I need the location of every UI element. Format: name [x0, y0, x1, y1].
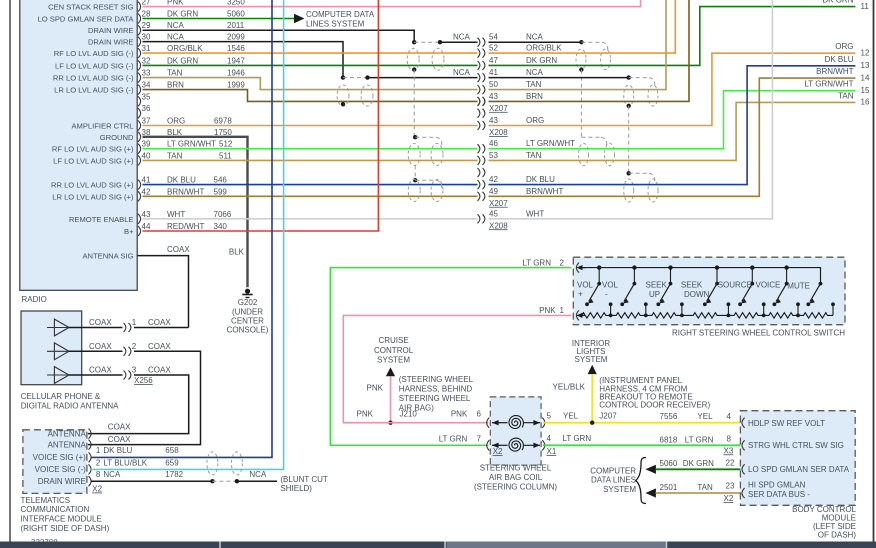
node connector row 47: [478, 61, 480, 70]
svg-text:X2: X2: [493, 447, 503, 456]
wire ORG pin43 to right edge pin12: [489, 53, 856, 125]
svg-text:43: 43: [142, 210, 151, 219]
svg-text:RF LO LVL AUD SIG (+): RF LO LVL AUD SIG (+): [52, 145, 134, 154]
svg-text:WHT: WHT: [526, 209, 544, 218]
wire shield dash 2011: [414, 41, 440, 43]
svg-text:7066: 7066: [214, 210, 232, 219]
svg-text:1750: 1750: [214, 128, 232, 137]
wire TAN pin53 to right edge pin16: [489, 102, 856, 160]
svg-text:8: 8: [727, 435, 732, 444]
svg-text:NCA: NCA: [249, 470, 267, 479]
node arrow computer data tan: [645, 488, 656, 497]
node radio pin bracket: [138, 25, 141, 35]
svg-text:42: 42: [489, 175, 498, 184]
svg-text:YEL/BLK: YEL/BLK: [553, 383, 586, 392]
svg-text:658: 658: [165, 446, 179, 455]
svg-text:6: 6: [477, 410, 482, 419]
wire shield dash 2099: [343, 77, 368, 79]
wire LT GRN/WHT pin46 to right edge pin15: [489, 91, 856, 149]
svg-text:41: 41: [142, 176, 151, 185]
node junction drain 2011 b: [438, 40, 442, 44]
svg-text:16: 16: [861, 98, 870, 107]
svg-text:46: 46: [489, 139, 498, 148]
wire NCA pin54 shield drain right: [489, 41, 582, 43]
shield R4 dot dash: [627, 171, 631, 175]
op-amp telematics interface module box: [23, 430, 87, 494]
wire shield R1 dash: [581, 41, 602, 43]
svg-text:511: 511: [219, 151, 232, 160]
svg-text:YEL: YEL: [563, 411, 579, 420]
svg-text:HI SPD GMLAN: HI SPD GMLAN: [748, 481, 806, 490]
node shield R1 bottom dot: [579, 67, 583, 71]
svg-text:LT GRN: LT GRN: [439, 434, 468, 443]
node coil left brackets: [487, 418, 490, 428]
svg-text:NCA: NCA: [453, 33, 471, 42]
svg-text:1546: 1546: [227, 44, 245, 53]
wire TAN 1946 radio pin33: [143, 78, 478, 90]
switch riser 3: [680, 302, 684, 306]
node connector row 50: [478, 85, 480, 94]
svg-text:COMPUTER DATA: COMPUTER DATA: [306, 10, 375, 19]
svg-text:2: 2: [96, 458, 101, 467]
node coil right brackets: [542, 418, 545, 428]
antenna symbol 3: [54, 367, 69, 384]
svg-text:3: 3: [132, 366, 137, 375]
wire PNK 3250 radio pin27 to top edge: [143, 0, 641, 7]
svg-text:B+: B+: [124, 227, 134, 236]
shield R1 ovals: [576, 49, 586, 70]
svg-text:NCA: NCA: [167, 21, 185, 30]
svg-text:2: 2: [560, 258, 565, 267]
node drain dot b: [235, 479, 239, 483]
wire BRN/WHT 599 radio pin42: [143, 195, 478, 197]
wire NCA to connector pin41: [368, 77, 478, 79]
node connector row 41: [478, 73, 480, 82]
node arrow to interior lights: [588, 365, 597, 374]
svg-text:COAX: COAX: [89, 318, 112, 327]
node cellular bracket 3: [124, 371, 126, 380]
svg-text:BRN/WHT: BRN/WHT: [816, 67, 853, 76]
svg-text:1782: 1782: [165, 470, 183, 479]
switch blade 5: [750, 265, 754, 269]
svg-text:ORG: ORG: [835, 42, 853, 51]
switch blade 7: [820, 268, 822, 284]
svg-text:X3: X3: [724, 446, 734, 455]
ground G202: [245, 289, 250, 294]
svg-text:31: 31: [142, 44, 151, 53]
wire DK GRN pin47 to right edge pin11: [489, 7, 856, 66]
wire BRN/WHT pin49 to right edge pin14: [489, 78, 856, 196]
wire NCA 2099 radio pin30 drain: [143, 42, 344, 78]
svg-text:LT GRN/WHT: LT GRN/WHT: [526, 139, 575, 148]
op-amp U1 radio module box: [20, 0, 137, 290]
node telematics bracket: [89, 440, 92, 450]
node shield R3 bottom dot: [627, 104, 631, 108]
node connector empty brackets rows35/36: [478, 97, 480, 106]
svg-text:MUTE: MUTE: [787, 281, 810, 290]
wire DK GRN 5060 to BCM pin22: [656, 468, 741, 470]
svg-text:DK BLU: DK BLU: [526, 175, 555, 184]
wire YEL/BLK to interior lights: [591, 374, 593, 423]
svg-text:34: 34: [142, 81, 151, 90]
svg-text:PNK: PNK: [367, 383, 384, 392]
svg-text:54: 54: [489, 33, 498, 42]
svg-text:41: 41: [489, 68, 498, 77]
wire COAX cellular row 2 left: [69, 350, 123, 352]
svg-text:45: 45: [489, 209, 498, 218]
wire NCA blunt cut: [237, 480, 277, 482]
wire LT BLU/BLK 659 voice sig-: [91, 0, 284, 469]
wire shield L2-L3 vertical: [414, 166, 416, 181]
op-amp steering wheel air bag coil box: [490, 397, 541, 465]
wire TAN 511 radio pin40: [143, 159, 478, 161]
node radio pin bracket: [138, 60, 141, 70]
svg-text:(BLUNT CUT: (BLUNT CUT: [280, 475, 328, 484]
node radio pin bracket: [138, 48, 141, 58]
node connector row 53: [478, 156, 480, 165]
svg-text:5: 5: [547, 411, 552, 420]
node radio pin bracket: [138, 121, 141, 131]
inductor coil top spiral: [509, 416, 523, 429]
wire WHT pin45 to top edge: [489, 0, 773, 219]
svg-text:LT GRN: LT GRN: [563, 434, 592, 443]
svg-text:23: 23: [726, 481, 735, 490]
svg-text:ORG: ORG: [167, 117, 185, 126]
wire COAX row2 to telematics antenna2: [88, 351, 201, 444]
wire YEL 7556 coil pin5 to BCM pin4: [543, 422, 740, 424]
wire right drawing frame: [873, 0, 875, 542]
svg-text:1: 1: [96, 446, 101, 455]
node junction J207: [590, 421, 594, 425]
svg-text:X207: X207: [489, 104, 508, 113]
op-amp body control module box: [740, 411, 855, 506]
svg-text:OF DASH): OF DASH): [818, 531, 857, 540]
node connector row 52: [478, 49, 480, 58]
svg-text:512: 512: [219, 140, 233, 149]
wire left drawing frame: [9, 0, 11, 542]
wire ORG/BLK pin52 to top edge: [489, 0, 676, 53]
node telematics bracket: [89, 464, 92, 474]
svg-text:VOL: VOL: [602, 281, 619, 290]
svg-text:(STEERING WHEEL: (STEERING WHEEL: [399, 375, 474, 384]
node radio pin bracket: [138, 85, 141, 95]
svg-text:599: 599: [214, 187, 228, 196]
svg-text:33: 33: [142, 69, 151, 78]
svg-text:LR LO LVL AUD SIG (-): LR LO LVL AUD SIG (-): [54, 86, 134, 95]
svg-text:LT GRN/WHT: LT GRN/WHT: [804, 80, 853, 89]
svg-text:15: 15: [861, 86, 870, 95]
node switch pin1 bracket: [576, 310, 579, 320]
svg-text:X2: X2: [92, 485, 102, 494]
svg-text:28: 28: [142, 10, 151, 19]
switch blade 6: [784, 265, 788, 269]
svg-text:2501: 2501: [660, 483, 678, 492]
node cellular bracket 2: [124, 347, 126, 356]
wire BRN 1999 radio pin34: [143, 90, 478, 102]
node radio pin bracket: [138, 226, 141, 236]
node connector row 43: [478, 121, 480, 130]
resistor switch chain 6: [764, 313, 798, 318]
switch blade 3: [668, 265, 672, 269]
svg-text:14: 14: [861, 73, 870, 82]
svg-text:REMOTE ENABLE: REMOTE ENABLE: [69, 215, 134, 224]
svg-text:7: 7: [477, 434, 482, 443]
svg-text:COAX: COAX: [108, 435, 131, 444]
wire DK BLU 658 voice sig+: [91, 0, 272, 457]
svg-text:5060: 5060: [227, 10, 245, 19]
svg-text:DK GRN: DK GRN: [167, 56, 198, 65]
wire BRN pin43 to top edge: [489, 0, 690, 101]
svg-text:43: 43: [489, 92, 498, 101]
svg-text:1: 1: [132, 318, 137, 327]
svg-text:DIGITAL RADIO ANTENNA: DIGITAL RADIO ANTENNA: [21, 401, 119, 410]
svg-text:SYSTEM: SYSTEM: [603, 485, 636, 494]
node connector row 54: [478, 38, 480, 47]
node radio pin bracket: [138, 73, 141, 83]
wire COAX cellular row 3 left: [69, 374, 123, 376]
svg-text:1999: 1999: [227, 81, 245, 90]
shield L3 ovals rows 42/49: [408, 180, 420, 202]
svg-text:NCA: NCA: [103, 470, 121, 479]
node shield L1 drain dot: [412, 67, 416, 71]
bottom scrollbar separators: [219, 542, 221, 548]
node connector row 49: [478, 192, 480, 201]
svg-text:43: 43: [489, 116, 498, 125]
svg-text:BRN/WHT: BRN/WHT: [526, 187, 563, 196]
svg-text:VOICE SIG (-): VOICE SIG (-): [35, 465, 86, 474]
svg-text:SOURCE: SOURCE: [718, 281, 752, 290]
inductor coil bottom spiral: [509, 438, 523, 451]
node junction drain 2011: [412, 40, 416, 44]
svg-text:NCA: NCA: [453, 68, 471, 77]
bottom scrollbar track: [0, 542, 876, 548]
wire shield R1 vertical: [580, 70, 582, 138]
op-amp cellular phone antenna box: [21, 311, 82, 385]
svg-text:50: 50: [489, 80, 498, 89]
svg-text:COAX: COAX: [89, 342, 112, 351]
node radio pin bracket: [138, 191, 141, 201]
svg-text:DK BLU: DK BLU: [103, 446, 132, 455]
resistor switch chain 5: [728, 313, 763, 318]
svg-text:DRAIN WIRE: DRAIN WIRE: [88, 26, 134, 35]
svg-text:4: 4: [547, 434, 552, 443]
svg-text:TELEMATICS: TELEMATICS: [21, 496, 71, 505]
node connector row 42: [478, 180, 480, 189]
wire LT GRN/WHT 512 radio pin39: [143, 148, 478, 150]
svg-text:YEL: YEL: [697, 412, 713, 421]
shield R4 ovals: [624, 179, 634, 202]
resistor switch chain 1: [577, 313, 611, 318]
svg-text:22: 22: [726, 458, 735, 467]
node BCM pin bracket: [742, 488, 745, 498]
shield L2 ovals rows 46/53: [408, 144, 420, 166]
svg-text:LF LO LVL AUD SIG (-): LF LO LVL AUD SIG (-): [55, 61, 134, 70]
svg-text:-: -: [605, 290, 608, 299]
svg-text:TAN: TAN: [838, 91, 854, 100]
svg-text:ANTENNA: ANTENNA: [48, 440, 87, 449]
wire RED/WHT 340 radio pin44 B+ to top edge: [143, 0, 379, 231]
node BCM pin bracket: [742, 418, 745, 428]
svg-text:53: 53: [489, 151, 498, 160]
svg-text:36: 36: [142, 104, 151, 113]
svg-text:VOICE SIG (+): VOICE SIG (+): [33, 453, 86, 462]
svg-text:4: 4: [727, 412, 732, 421]
svg-text:7556: 7556: [660, 412, 678, 421]
svg-text:X208: X208: [489, 128, 508, 137]
wire switch top bus: [580, 268, 821, 284]
svg-text:ORG/BLK: ORG/BLK: [526, 44, 562, 53]
resistor switch chain 2: [611, 313, 646, 318]
svg-text:CELLULAR PHONE &: CELLULAR PHONE &: [21, 392, 101, 401]
svg-text:RF LO LVL AUD SIG (-): RF LO LVL AUD SIG (-): [54, 49, 134, 58]
svg-text:BLK: BLK: [167, 128, 183, 137]
svg-text:(UNDER: (UNDER: [232, 308, 263, 317]
wire LT GRN switch pin2 to coil pin7: [330, 268, 571, 446]
svg-text:COAX: COAX: [108, 423, 131, 432]
wire COAX row1 to antenna sig: [134, 327, 189, 329]
svg-text:LT GRN/WHT: LT GRN/WHT: [167, 140, 216, 149]
node radio pin bracket: [138, 14, 141, 24]
svg-text:COMMUNICATION: COMMUNICATION: [21, 505, 90, 514]
svg-text:RADIO: RADIO: [22, 295, 47, 304]
svg-text:RR LO LVL AUD SIG (+): RR LO LVL AUD SIG (+): [51, 181, 134, 190]
svg-text:SYSTEM: SYSTEM: [575, 355, 608, 364]
node junction J210: [388, 421, 392, 425]
svg-text:BRN: BRN: [167, 81, 184, 90]
svg-text:ORG/BLK: ORG/BLK: [167, 44, 203, 53]
svg-text:2011: 2011: [227, 21, 245, 30]
svg-text:COAX: COAX: [148, 318, 171, 327]
svg-text:STEERING WHEEL: STEERING WHEEL: [399, 394, 471, 403]
svg-text:CONTROL DOOR RECEIVER): CONTROL DOOR RECEIVER): [599, 401, 710, 410]
wire NCA pin41 shield drain right: [489, 77, 629, 79]
svg-text:VOICE: VOICE: [756, 281, 781, 290]
svg-text:DK GRN: DK GRN: [167, 10, 198, 19]
svg-text:NCA: NCA: [526, 68, 544, 77]
svg-text:35: 35: [142, 92, 151, 101]
svg-text:DK BLU: DK BLU: [167, 176, 196, 185]
antenna symbol 2: [54, 343, 69, 360]
wire PNK branch to cruise control: [390, 376, 392, 423]
node telematics bracket: [89, 476, 92, 486]
shield R3 ovals: [624, 85, 634, 106]
svg-text:40: 40: [142, 151, 151, 160]
svg-text:CONSOLE): CONSOLE): [227, 326, 269, 335]
svg-text:TAN: TAN: [526, 151, 542, 160]
svg-text:LO SPD GMLAN SER DATA: LO SPD GMLAN SER DATA: [748, 465, 850, 474]
node radio pin bracket: [138, 155, 141, 165]
svg-text:RIGHT STEERING WHEEL CONTROL S: RIGHT STEERING WHEEL CONTROL SWITCH: [672, 328, 845, 337]
node shield R3 dot: [627, 75, 631, 79]
node radio pin bracket: [138, 144, 141, 154]
svg-text:SEEK: SEEK: [646, 281, 668, 290]
svg-text:BRN/WHT: BRN/WHT: [167, 187, 204, 196]
svg-text:LT BLU/BLK: LT BLU/BLK: [103, 458, 147, 467]
svg-text:42: 42: [142, 187, 151, 196]
svg-text:DK GRN: DK GRN: [526, 56, 557, 65]
node connector row empty: [478, 168, 480, 177]
node telematics bracket: [89, 429, 92, 439]
node cellular bracket 1: [124, 323, 126, 332]
svg-text:SER DATA BUS -: SER DATA BUS -: [748, 490, 810, 499]
shield L2 dot and dash: [413, 135, 417, 139]
svg-text:340: 340: [214, 222, 228, 231]
node telematics bracket: [89, 452, 92, 462]
svg-text:X256: X256: [134, 376, 153, 385]
wire shield L1 drain vertical: [413, 70, 415, 138]
svg-text:DK GRN: DK GRN: [683, 459, 714, 468]
svg-text:3250: 3250: [227, 0, 245, 7]
svg-text:NCA: NCA: [526, 33, 544, 42]
node radio pin bracket: [138, 180, 141, 190]
svg-text:2: 2: [132, 342, 137, 351]
svg-text:37: 37: [142, 117, 151, 126]
wire NCA to connector pin54: [440, 41, 478, 43]
svg-text:STRG WHL CTRL SW SIG: STRG WHL CTRL SW SIG: [748, 441, 844, 450]
switch riser 6: [796, 302, 800, 306]
wire COAX cellular row 1 left: [69, 327, 123, 329]
svg-text:LO SPD GMLAN SER DATA: LO SPD GMLAN SER DATA: [38, 15, 135, 24]
svg-text:ORG: ORG: [526, 116, 544, 125]
svg-text:27: 27: [142, 0, 151, 7]
svg-text:6978: 6978: [214, 117, 232, 126]
node shield L0 bottom dot: [341, 102, 345, 106]
svg-text:CRUISE: CRUISE: [378, 336, 408, 345]
svg-text:39: 39: [142, 140, 151, 149]
svg-text:STEERING WHEEL: STEERING WHEEL: [480, 464, 552, 473]
switch blade 1: [597, 265, 601, 269]
svg-text:(RIGHT SIDE OF DASH): (RIGHT SIDE OF DASH): [21, 524, 110, 533]
node arrow computer data dk grn: [645, 465, 656, 474]
svg-text:DOWN: DOWN: [684, 290, 710, 299]
wire COAX row3 to telematics antenna1: [88, 375, 189, 434]
svg-text:COAX: COAX: [89, 366, 112, 375]
wire NCA 2011 radio pin29 drain: [143, 30, 415, 42]
svg-text:32: 32: [142, 56, 151, 65]
wire NCA 1782 drain: [91, 480, 212, 482]
svg-text:UP: UP: [649, 290, 660, 299]
svg-text:HDLP SW REF VOLT: HDLP SW REF VOLT: [748, 419, 825, 428]
node BCM pin bracket: [742, 464, 745, 474]
svg-text:8: 8: [96, 470, 101, 479]
node radio pin bracket: [138, 214, 141, 224]
svg-text:COAX: COAX: [167, 245, 190, 254]
resistor switch chain 7: [798, 313, 833, 318]
svg-text:44: 44: [142, 222, 151, 231]
wire COAX antenna sig: [138, 256, 189, 328]
switch riser 7: [831, 302, 835, 306]
svg-text:PNK: PNK: [167, 0, 184, 7]
svg-text:X207: X207: [489, 199, 508, 208]
svg-text:HARNESS, BEHIND: HARNESS, BEHIND: [399, 384, 473, 393]
svg-text:DRAIN WIRE: DRAIN WIRE: [88, 38, 134, 47]
node connector row 46: [478, 144, 480, 153]
svg-text:1946: 1946: [227, 69, 245, 78]
switch blade 2: [632, 265, 636, 269]
wire DK GRN 1947 radio pin32: [143, 64, 478, 66]
svg-text:DK BLU: DK BLU: [825, 55, 854, 64]
resistor switch chain 4: [682, 313, 729, 318]
svg-text:PNK: PNK: [539, 306, 556, 315]
node junction drain 2099: [341, 75, 345, 79]
op-amp right steering wheel control switch box: [573, 257, 845, 325]
svg-text:LT GRN: LT GRN: [522, 258, 551, 267]
wire shield R3 dash: [629, 77, 649, 79]
wire PNK switch pin1 to coil pin6: [343, 315, 571, 422]
wire WHT 7066 radio pin43: [143, 218, 478, 220]
wire TAN 2501 to BCM pin23: [656, 492, 741, 494]
svg-text:1947: 1947: [227, 56, 245, 65]
